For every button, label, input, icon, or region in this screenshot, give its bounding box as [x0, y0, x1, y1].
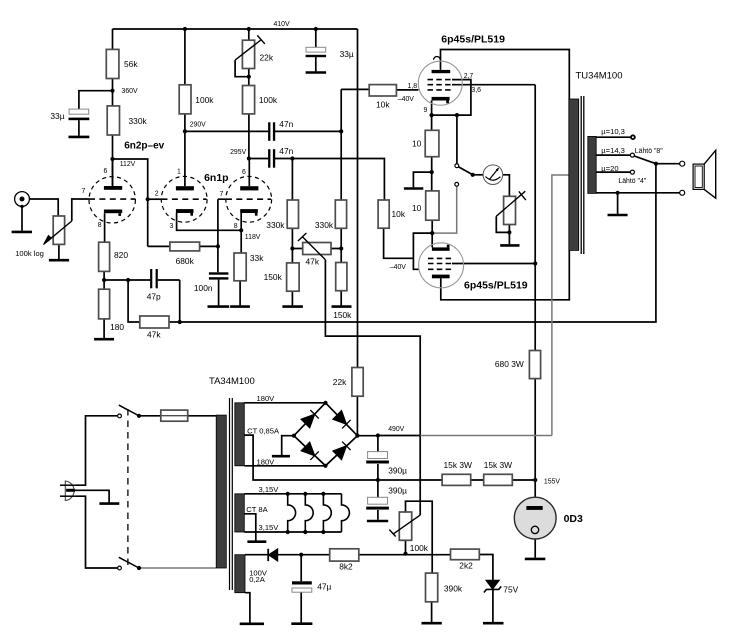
node 47n2 right [290, 156, 294, 160]
svg-text:–40V: –40V [390, 264, 406, 271]
preset meter arrow [496, 191, 526, 216]
node g3 tie top [455, 113, 459, 117]
svg-text:6n1p: 6n1p [204, 172, 229, 184]
svg-text:100n: 100n [194, 283, 213, 293]
wire 10k#1 to tube grid [396, 89, 418, 91]
wire zener to ground [492, 589, 494, 622]
wire 820 to cathode node [103, 271, 105, 289]
wire tap node to speaker hot [656, 163, 680, 165]
diode bias rectifier [268, 549, 278, 561]
node caps junction [376, 478, 380, 482]
wire 56k top stem [112, 29, 114, 49]
svg-text:75V: 75V [503, 584, 518, 594]
tube 6p45s PL519 bottom [419, 243, 464, 288]
svg-text:47k: 47k [306, 257, 320, 267]
wire 100k preset bottom to bias rail [405, 540, 407, 553]
node heater b3 [321, 530, 325, 534]
meter switch contact 2 [455, 182, 459, 186]
resistor 8k2 [330, 549, 359, 561]
ground 33u right [306, 71, 327, 74]
svg-text:CT 0,85A: CT 0,85A [247, 427, 280, 436]
bias winding bar [235, 555, 245, 593]
node bridge bottom [323, 464, 327, 468]
svg-text:47n: 47n [279, 119, 293, 129]
potentiometer 100k log wiper arrow [44, 221, 72, 245]
node secondary ground [616, 191, 620, 195]
svg-text:15k 3W: 15k 3W [484, 460, 512, 470]
resistor 15k 3W no1 [442, 474, 471, 485]
wire bridge diamond [294, 403, 358, 466]
wire bridge minus to ground [282, 436, 294, 455]
resistor 820 [99, 242, 110, 271]
wire preset wiper tie [496, 216, 509, 232]
wire 47p left drop to 47k [128, 280, 140, 322]
secondary winding bar [588, 136, 596, 193]
diode bridge lower-right [333, 446, 346, 460]
wire top tube g2 to screen rail [452, 84, 535, 86]
wire 10k#2 jog to grid [384, 228, 414, 258]
wire bottom tube anode to primary bottom [441, 250, 570, 299]
capacitor 33u left [69, 109, 90, 136]
svg-text:490V: 490V [388, 426, 404, 433]
resistor 10 cathode top [425, 130, 439, 156]
ground 100n [208, 305, 230, 308]
wire 33u-2 top stem [315, 29, 317, 47]
svg-text:–40V: –40V [398, 96, 414, 103]
node 680k [216, 244, 220, 248]
preset 100k bias [399, 512, 411, 540]
capacitor 47n upper [268, 122, 275, 141]
node tap selector [654, 162, 658, 166]
wire cathode node to meter switch contact 1 [456, 115, 458, 164]
node bias diode out [299, 553, 303, 557]
heater filament 4 [342, 494, 350, 532]
potentiometer 47k balance [303, 243, 331, 255]
wire output tap mu20 [596, 171, 630, 173]
wire screen rail down to 680 3W [534, 85, 536, 351]
resistor 15k 3W no2 [484, 474, 513, 485]
switch arm lower [119, 557, 139, 568]
svg-text:295V: 295V [230, 149, 246, 156]
svg-text:390k: 390k [444, 584, 463, 594]
svg-text:µ=10,3: µ=10,3 [601, 127, 625, 136]
ground 390u lower [367, 520, 388, 523]
wire mains bottom gray to primary [139, 567, 216, 569]
node rail 33u [314, 27, 318, 31]
switch contact lower [118, 566, 122, 570]
wire grid3 vertical and 100n stem [218, 199, 226, 272]
svg-text:290V: 290V [190, 121, 206, 128]
svg-text:8: 8 [234, 223, 238, 230]
primary winding bar [216, 415, 226, 568]
svg-text:820: 820 [114, 250, 128, 260]
svg-text:22k: 22k [260, 53, 274, 63]
svg-text:8k2: 8k2 [339, 562, 353, 572]
ground 150k no2 [332, 305, 352, 308]
wire 330k#2 chain [340, 89, 342, 305]
svg-text:150k: 150k [333, 310, 352, 320]
wire 100k#1 bottom to 290V node [184, 114, 186, 131]
wire 295V row through 47n to 10k#2 [249, 159, 385, 201]
wire bottom tube g2 to screen rail node [452, 263, 535, 265]
node heater b2 [303, 530, 307, 534]
svg-text:410V: 410V [274, 21, 290, 28]
svg-text:100k: 100k [410, 543, 429, 553]
svg-text:6p45s/PL519: 6p45s/PL519 [464, 280, 528, 292]
switch contact upper [118, 414, 122, 418]
node screen g2 [533, 261, 537, 265]
trimmer 22k arrow [235, 35, 265, 60]
svg-text:680k: 680k [176, 256, 195, 266]
wire 33k bottom to ground [239, 281, 241, 306]
svg-text:180V: 180V [257, 394, 276, 403]
wire 360V node to 33u cap [79, 91, 113, 109]
wire pot bottom to ground [58, 244, 60, 259]
potentiometer 47k arrow [298, 233, 326, 260]
resistor 47k feedback [140, 316, 169, 328]
capacitor 33u right [306, 47, 327, 57]
wire 47k right to feedback node [169, 321, 180, 323]
speaker terminal cold [680, 190, 685, 195]
wire input to pot top [29, 199, 58, 216]
svg-text:33k: 33k [250, 253, 264, 263]
svg-text:100k: 100k [259, 95, 278, 105]
node heater t2 [303, 492, 307, 496]
svg-text:2,7: 2,7 [464, 73, 474, 80]
wire 100k preset top tie to 390k [406, 501, 433, 573]
svg-text:47p: 47p [147, 292, 161, 302]
node grid2 [146, 197, 150, 201]
wire mains upper lead to switch [76, 416, 118, 485]
wire HV 180V bottom to bridge [244, 465, 325, 467]
svg-text:330k: 330k [266, 220, 285, 230]
svg-text:150k: 150k [264, 272, 283, 282]
wire 47u stems [300, 555, 302, 623]
svg-text:33µ: 33µ [50, 111, 64, 121]
heater filament 2 [305, 494, 313, 532]
core lines [581, 96, 584, 254]
switch arm upper [119, 405, 139, 416]
ground 150k no1 [282, 305, 303, 308]
wire pot wiper to grid tube1 [72, 199, 89, 221]
wire 47p right drop to node [179, 280, 181, 322]
tube 6p45s PL519 top [418, 56, 462, 105]
wire meter switch contact2 gray run [433, 186, 457, 233]
fuse link line [161, 415, 188, 417]
wire HV CT run to caps junction [244, 435, 378, 480]
wire 680k right lead to node [200, 245, 218, 247]
svg-text:3: 3 [170, 223, 174, 230]
node 155V [533, 478, 537, 482]
primary winding bar [569, 99, 579, 250]
svg-text:15k 3W: 15k 3W [444, 460, 472, 470]
zener 75V [484, 580, 501, 592]
wire heater bottom 3.15V [244, 531, 341, 533]
resistor 330k no1 [287, 200, 298, 228]
heater filament 1 [288, 494, 296, 532]
wire 410V rail drop to 22k dropper [357, 29, 359, 368]
fuse [161, 410, 188, 421]
node rail 22k [247, 27, 251, 31]
switch link dashed [127, 409, 129, 568]
node 47p left [126, 278, 130, 282]
wire mains earth to ground [75, 490, 109, 502]
svg-text:360V: 360V [122, 88, 138, 95]
wire 22k to 100k#2 [248, 69, 250, 86]
svg-text:10: 10 [412, 203, 422, 213]
wire preset bottom to ground [508, 225, 510, 245]
wire HV 180V top to bridge [244, 402, 325, 404]
wire 47k pot leads [292, 248, 341, 250]
node 22k wiper [247, 75, 251, 79]
wire heater top 3.15V [244, 493, 341, 495]
svg-text:10k: 10k [392, 209, 406, 219]
preset 100k arrow [389, 515, 420, 536]
potentiometer 100k log [53, 216, 64, 244]
svg-text:22k: 22k [333, 377, 347, 387]
ground pot 100k log [49, 259, 69, 262]
wire bridge plus to 22k and 490V node [357, 396, 378, 436]
wire cathode node row to 47p [104, 279, 180, 281]
wire 10 #2 to bottom tube cathode [431, 220, 433, 247]
wire bias winding bottom to ground [245, 593, 250, 623]
resistor 10k grid top [369, 85, 396, 96]
wire tube1 anode stem [112, 159, 114, 186]
tap terminal mu10.3 [631, 135, 635, 139]
resistor 33k [234, 253, 246, 281]
wire heater CT to ground [244, 514, 256, 541]
wire mains lower lead to switch [76, 496, 118, 568]
svg-text:0,2A: 0,2A [249, 575, 266, 584]
resistor 2k2 [451, 549, 480, 560]
wire 490V run black part [378, 435, 420, 437]
svg-text:47k: 47k [147, 329, 161, 339]
capacitor 100n [209, 272, 229, 279]
ground meter preset [500, 244, 519, 247]
svg-text:10: 10 [412, 139, 422, 149]
svg-text:330k: 330k [315, 220, 334, 230]
resistor 680 3W [529, 351, 540, 379]
node 330k2 bottom [339, 246, 343, 250]
svg-text:µ=14,3: µ=14,3 [601, 146, 625, 155]
svg-text:3,15V: 3,15V [259, 523, 280, 532]
wire 330k#1 chain [291, 159, 293, 306]
resistor 330k anode tube1 [107, 106, 119, 135]
svg-text:390µ: 390µ [388, 485, 407, 495]
wire feedback line to output tap [180, 164, 656, 322]
wire 490V node to caps [377, 436, 379, 520]
wire tube3 cathode to 33k [240, 213, 242, 253]
wire 180 bottom to ground [103, 319, 105, 338]
ground bias winding [240, 622, 264, 625]
svg-text:3,15V: 3,15V [259, 485, 280, 494]
svg-text:56k: 56k [124, 59, 138, 69]
wire grid stub tube2 [148, 198, 162, 200]
node 118V [239, 228, 243, 232]
svg-text:47n: 47n [279, 146, 293, 156]
ground input [12, 231, 32, 234]
wire 100k#2 bottom to 295V node [248, 114, 250, 159]
node preset wiper [507, 230, 511, 234]
wire 33u-2 to ground [315, 57, 317, 71]
tube 0D3 regulator [514, 497, 556, 539]
wire secondary ground [617, 193, 619, 214]
ground 33u left [69, 136, 90, 139]
wire meter to calibration preset [503, 175, 510, 197]
wire 290V row to 47n and node [185, 130, 341, 132]
heater filament 3 [323, 494, 331, 532]
svg-text:330k: 330k [129, 116, 148, 126]
node 290V [183, 129, 187, 133]
wire output tap mu14.3 [596, 154, 630, 156]
wire top tube g3 tie to cathode [432, 80, 471, 116]
mains earth pin [66, 489, 75, 492]
wire top tube cathode lead [431, 101, 433, 131]
wire 680 3W to 155V node and 0D3 [534, 379, 536, 498]
resistor 56k [106, 49, 119, 78]
svg-text:7: 7 [82, 188, 86, 195]
wire node ground stub [413, 172, 431, 187]
node heater t3 [321, 492, 325, 496]
capacitor 390u upper [366, 452, 389, 464]
node mains switch up [137, 414, 141, 418]
svg-text:µ=20: µ=20 [601, 164, 618, 173]
svg-text:TU34M100: TU34M100 [576, 70, 623, 81]
svg-text:2k2: 2k2 [459, 561, 473, 571]
node bias 100k [403, 552, 407, 556]
svg-text:100k log: 100k log [15, 249, 44, 258]
node 490V [376, 433, 380, 437]
svg-text:7: 7 [220, 191, 224, 198]
wire tube1 cathode to 820 [104, 213, 106, 242]
ground 10 resistors node [404, 187, 423, 190]
wire 22k wiper tie [235, 60, 249, 77]
node 330k1 bottom [290, 246, 294, 250]
resistor 10 cathode bottom [426, 191, 439, 220]
resistor 390k [426, 573, 438, 602]
wire 100n bottom stem [218, 280, 220, 306]
wire tube2 cathode to 118V node [177, 213, 242, 230]
trimmer 22k [242, 40, 254, 68]
node mains switch down [137, 566, 141, 570]
svg-text:2: 2 [155, 190, 159, 197]
ground bridge minus [272, 455, 290, 458]
ground 390k [422, 622, 442, 625]
wire grid feed to 10k#1 [341, 88, 369, 90]
resistor 22k dropper [352, 368, 363, 397]
wire 2k2 to zener [479, 555, 493, 581]
node cathode 820 [102, 278, 106, 282]
resistor 100k first [179, 85, 191, 114]
resistor 10k grid bottom [378, 200, 389, 228]
svg-text:680 3W: 680 3W [495, 359, 524, 369]
wire tap selector arm [634, 156, 656, 164]
ground 33k [230, 305, 250, 308]
svg-text:9: 9 [424, 107, 428, 114]
wire tube2 anode stem [184, 131, 186, 186]
wire switch node to meter [473, 174, 484, 176]
svg-text:Lähtö "4": Lähtö "4" [618, 178, 646, 185]
svg-text:1: 1 [177, 169, 181, 176]
wire secondary bottom to speaker [596, 192, 680, 194]
ground output secondary [608, 214, 628, 217]
svg-text:10k: 10k [376, 100, 390, 110]
node bridge left [292, 434, 296, 438]
wire 155V row resistors [378, 479, 535, 481]
resistor 100k second [243, 86, 255, 114]
wire 100k#1 top stem [184, 29, 186, 85]
ground 47u [291, 622, 312, 625]
meter switch contact 1 [455, 164, 459, 168]
diode bridge lower-left [301, 442, 314, 455]
node meter switch [471, 173, 475, 177]
svg-text:6: 6 [242, 169, 246, 176]
wire 680k left lead [148, 245, 170, 247]
resistor 150k no2 [336, 263, 347, 291]
node top tube cathode [430, 113, 434, 117]
tube 6n1p triode b [226, 176, 272, 222]
node 10 resistors [430, 170, 434, 174]
diode bridge upper-left [301, 414, 314, 427]
core lines [230, 398, 233, 590]
wire 112V node to grid of 6n1p [113, 159, 148, 246]
svg-text:6: 6 [104, 168, 108, 175]
capacitor 390u lower [366, 497, 389, 509]
speaker terminal hot [680, 161, 685, 166]
svg-text:Lähtö "8": Lähtö "8" [635, 148, 663, 155]
svg-text:180V: 180V [257, 458, 276, 467]
svg-text:TA34M100: TA34M100 [209, 376, 255, 387]
ground zener [483, 622, 504, 625]
resistor 150k no1 [287, 263, 300, 291]
node heater b1 [286, 530, 290, 534]
wire meter switch arm [458, 167, 472, 175]
resistor 180 [99, 289, 110, 319]
svg-text:0D3: 0D3 [564, 513, 583, 525]
wire tube3 anode stem [248, 159, 250, 187]
diode bridge upper-right [333, 411, 346, 425]
wire 0D3 bottom to ground [534, 539, 536, 558]
node heater t1 [286, 492, 290, 496]
tube 6n2p-ev triode [89, 177, 135, 223]
wire bias winding to diode and 8k2 [245, 554, 451, 556]
node feedback left [178, 320, 182, 324]
svg-text:8: 8 [98, 222, 102, 229]
svg-text:390µ: 390µ [388, 465, 407, 475]
tap terminal mu14.3 [630, 153, 634, 157]
ground heater CT [247, 540, 266, 543]
svg-text:33µ: 33µ [340, 49, 354, 59]
preset meter calibration [504, 196, 516, 224]
wire 10 #1 to node [431, 157, 433, 191]
node 360V [110, 89, 114, 93]
svg-text:3,6: 3,6 [471, 87, 481, 94]
node bridge right [355, 434, 359, 438]
svg-text:100k: 100k [195, 95, 214, 105]
wire cathode node to g3 tie bottom tube [413, 233, 432, 269]
svg-text:112V: 112V [120, 161, 136, 168]
svg-text:CT 8A: CT 8A [246, 505, 268, 514]
wire 56k to 360V node to 330k [112, 79, 114, 106]
svg-text:6p45s/PL519: 6p45s/PL519 [441, 33, 505, 45]
wire 330k bottom to node 112V [112, 135, 114, 186]
svg-text:180: 180 [110, 322, 124, 332]
tube 6n1p triode a [161, 176, 207, 222]
svg-text:155V: 155V [544, 479, 560, 486]
wire 490V gray run to primary center tap [420, 175, 569, 436]
tap terminal mu20 [630, 170, 634, 174]
ground mains earth [99, 502, 119, 505]
